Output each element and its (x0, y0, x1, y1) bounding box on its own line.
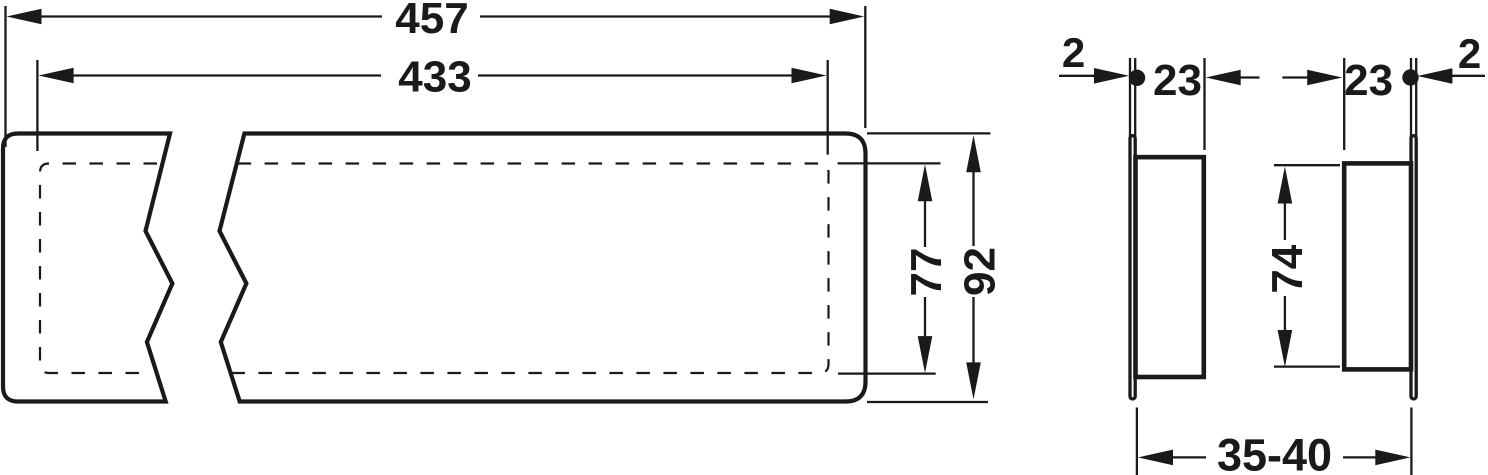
dimension 35-40 arrowhead left (1138, 450, 1173, 466)
dashed recess rectangle left part (40, 164, 157, 374)
right profile box (1344, 163, 1411, 369)
arrowhead for 2 right (pointing left) (1417, 68, 1452, 84)
body outline right piece with break zigzag (220, 134, 866, 402)
svg-text:77: 77 (902, 248, 951, 297)
dimension 35-40 extension line right (1410, 408, 1412, 475)
dimension 35-40 extension line left (1136, 408, 1138, 475)
dimension 74 extension line bottom (1274, 365, 1340, 367)
dot marker left profile (1129, 70, 1145, 86)
dimension 35-40 line left segment (1170, 456, 1206, 458)
dashed recess rectangle right part (230, 164, 829, 374)
svg-text:2: 2 (1062, 29, 1085, 76)
dimension 457 extension line left (4, 6, 6, 147)
dimension 433 line left segment (72, 74, 381, 76)
dimension 92 arrowhead down (966, 362, 981, 399)
dimension 74 arrowhead down (1278, 330, 1293, 367)
dimension 433 arrowhead left (39, 68, 74, 84)
dimension 433 line right segment (478, 74, 793, 76)
dimension 92 arrowhead up (966, 135, 981, 172)
dimension 433 arrowhead right (792, 68, 827, 84)
arrowhead 23 right (pointing right at box edge) (1307, 70, 1342, 86)
left profile flange extension line outer (1129, 58, 1131, 140)
shaft 23 right (1282, 76, 1310, 78)
dimension 74 arrowhead up (1278, 167, 1293, 204)
left profile box (1136, 157, 1204, 377)
dot marker right profile (1402, 69, 1418, 85)
right profile flange extension line outer (1415, 58, 1417, 140)
svg-text:2: 2 (1458, 30, 1481, 77)
leader line for 2 left (1059, 75, 1100, 77)
dimension 35-40 arrowhead right (1375, 450, 1410, 466)
dimension 457 line left segment (40, 15, 382, 17)
leader line for 2 right (1450, 75, 1485, 77)
arrowhead 23 left (pointing left at box edge) (1206, 70, 1241, 86)
right profile flange extension line inner (1410, 58, 1412, 140)
dimension 433 extension line left (36, 60, 38, 151)
left profile box right extension line (1203, 58, 1205, 150)
dimension 74 extension line top (1274, 164, 1340, 166)
svg-text:74: 74 (1263, 244, 1312, 293)
dimension 92 line upper segment (972, 170, 974, 246)
dimension 77 extension line top (838, 162, 941, 164)
svg-text:35-40: 35-40 (1217, 430, 1332, 475)
left profile flange extension line inner (1134, 58, 1136, 140)
body outline left piece with break zigzag (3, 134, 172, 402)
svg-text:92: 92 (956, 247, 1005, 296)
shaft 23 left (1239, 76, 1260, 78)
svg-text:433: 433 (398, 52, 471, 101)
svg-text:23: 23 (1153, 56, 1202, 105)
dimension 74 line lower segment (1284, 296, 1286, 332)
dimension 77 arrowhead up (918, 164, 933, 201)
dimension 457 line right segment (480, 15, 831, 17)
dimension 74 line upper segment (1284, 202, 1286, 240)
dimension 77 line lower segment (924, 297, 926, 337)
arrowhead for 2 left (pointing right) (1094, 68, 1129, 84)
dimension 92 extension line bottom (867, 401, 988, 403)
dimension 77 arrowhead down (918, 336, 933, 373)
right profile box left extension line (1343, 58, 1345, 150)
dimension 92 extension line top (867, 132, 990, 134)
dimension 35-40 line right segment (1343, 456, 1377, 458)
dimension 457 arrowhead left (7, 9, 42, 25)
dimension 433 extension line right (827, 60, 829, 155)
svg-text:457: 457 (395, 0, 468, 43)
svg-text:23: 23 (1344, 56, 1393, 105)
dimension 77 line upper segment (924, 200, 926, 247)
left profile flange (stadium outline) (1130, 136, 1135, 399)
dimension 92 line lower segment (972, 297, 974, 365)
dimension 457 arrowhead right (830, 9, 865, 25)
dimension 457 extension line right (864, 6, 866, 128)
dimension 77 extension line bottom (838, 372, 936, 374)
right profile flange (stadium outline) (1411, 136, 1416, 399)
